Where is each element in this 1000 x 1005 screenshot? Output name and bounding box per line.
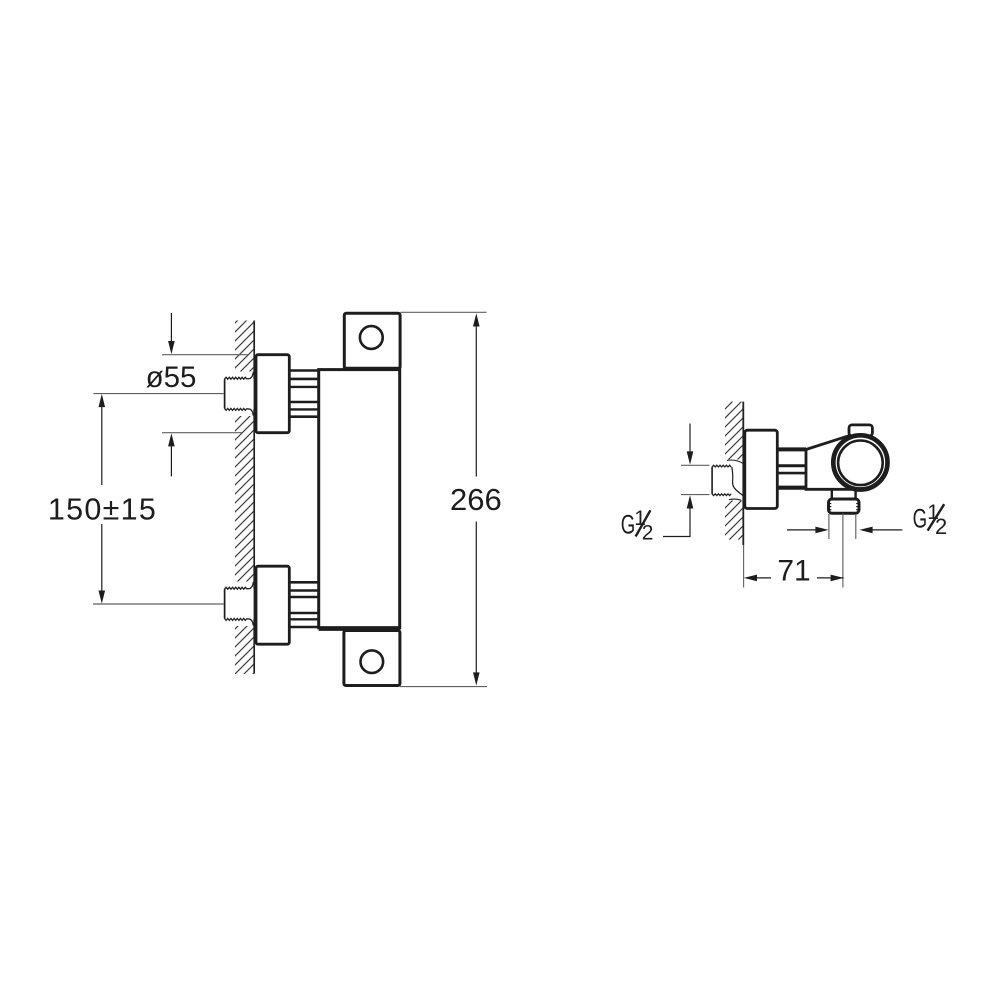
ribbed coupling (side view) — [776, 446, 806, 492]
svg-text:2: 2 — [642, 522, 654, 545]
upper threaded wall nipple (front view) — [224, 372, 254, 416]
lower escutcheon flange (front view) — [256, 566, 289, 644]
outlet G1/2 arrows — [787, 527, 902, 534]
dimension extension line: bottom of flange (ø55) — [162, 432, 242, 434]
wall face line (side view) — [742, 402, 744, 545]
lower ribbed coupling (front view) — [288, 581, 320, 630]
svg-text:150±15: 150±15 — [48, 493, 157, 527]
dimension 150±15 vertical line with arrows — [99, 394, 106, 604]
dimension 266 vertical line with arrows — [473, 313, 480, 685]
upper escutcheon flange (front view) — [256, 355, 289, 433]
bottom tab screw hole — [361, 650, 384, 673]
handle knob inner circle — [838, 441, 883, 486]
G1/2 inlet dimension: upper arrow (side view) — [687, 424, 694, 465]
dimension 266: extension lines — [401, 311, 487, 313]
dimension ø55: upper arrow — [168, 313, 175, 354]
top mounting tab (front view) — [344, 313, 400, 369]
threaded wall nipple (side view) — [711, 460, 743, 500]
svg-text:ø55: ø55 — [146, 361, 197, 394]
center line of lower inlet (150±15 bottom reference) — [93, 603, 230, 605]
svg-text:266: 266 — [450, 482, 502, 517]
svg-text:G: G — [621, 509, 636, 539]
handle knob outer circle (side view) — [833, 435, 887, 489]
body bottom heavy edge — [319, 626, 401, 631]
escutcheon flange (side view) — [745, 430, 778, 508]
dimension extension line: top of flange (ø55) — [162, 354, 248, 356]
top tab screw hole — [360, 326, 383, 349]
wall face line (front view) — [253, 321, 255, 674]
dimension ø55: lower arrow — [168, 433, 175, 476]
bottom mounting tab (front view) — [344, 631, 400, 686]
knob top button (side view) — [849, 425, 872, 436]
outlet stub (side view) — [832, 490, 856, 500]
valve body (side view) — [806, 435, 868, 489]
G1/2 inlet dimension: lower arrow with leader — [663, 495, 693, 536]
dimension 71 line with arrows — [744, 575, 844, 582]
outlet hose nut (side view) — [829, 499, 860, 513]
valve body (front view) — [319, 370, 400, 628]
wall hatch band (side view) — [725, 402, 744, 540]
lower threaded wall nipple (front view) — [224, 582, 254, 626]
upper ribbed coupling (front view) — [288, 369, 320, 418]
center line of upper inlet (150±15 top reference) — [93, 393, 233, 395]
nipple OD extension dashes (side view) — [681, 464, 710, 466]
outlet nut OD extension lines — [828, 514, 830, 539]
body/tab seam heavy line top — [344, 367, 399, 370]
svg-text:2: 2 — [935, 514, 947, 539]
svg-text:G: G — [913, 504, 928, 534]
label 71 — [771, 555, 817, 588]
wall face extension down to 71 dimension — [743, 545, 745, 588]
svg-text:71: 71 — [777, 555, 810, 588]
label G1/2 right — [913, 501, 948, 539]
outlet center line — [842, 514, 844, 588]
wall hatch band (front view) — [235, 321, 255, 675]
label G1/2 left — [621, 507, 654, 545]
